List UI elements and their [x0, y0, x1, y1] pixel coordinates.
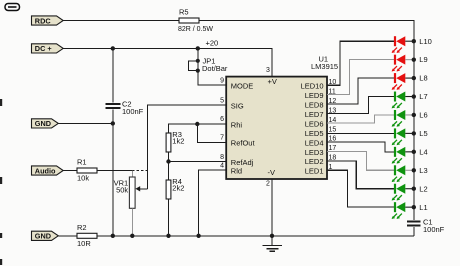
junction L3/anode rail: [412, 168, 416, 172]
VR1 wiper arrow: [139, 188, 147, 190]
svg-text:L8: L8: [419, 74, 427, 83]
potentiometer VR1 50k: [131, 171, 133, 178]
junction Rhi/RefOut: [195, 122, 199, 126]
svg-text:L5: L5: [419, 129, 427, 138]
wire GND flag to R2: [58, 235, 77, 237]
svg-text:Rhi: Rhi: [231, 120, 243, 129]
wire C2 to ground rail: [112, 109, 114, 235]
junction VR1/ground rail: [130, 234, 134, 238]
connector flag GND (lower): [32, 231, 59, 240]
svg-text:11: 11: [329, 88, 336, 95]
wire RefAdj node to R4: [168, 162, 170, 181]
svg-text:RDC: RDC: [35, 16, 52, 25]
junction C2/ground rail: [111, 234, 115, 238]
junction L6/anode rail: [412, 113, 416, 117]
svg-text:15: 15: [329, 126, 337, 133]
wire LED4 pin to LED L4: [327, 142, 395, 152]
LED L3 emission arrows: [392, 177, 397, 182]
svg-text:4: 4: [220, 163, 224, 170]
wire R1 to VR1: [97, 170, 132, 172]
svg-text:2k2: 2k2: [172, 183, 184, 192]
svg-text:Rld: Rld: [231, 166, 242, 175]
svg-text:DC +: DC +: [35, 44, 52, 53]
wire LED7 pin to LED L7: [327, 97, 395, 114]
wire R5 to LED anode rail: [199, 21, 414, 42]
wire LED3 pin to LED L3: [327, 151, 395, 170]
svg-text:LED6: LED6: [305, 119, 324, 128]
svg-text:8: 8: [220, 154, 224, 161]
svg-text:LED7: LED7: [305, 110, 324, 119]
svg-text:L6: L6: [419, 111, 427, 120]
svg-text:5: 5: [220, 97, 224, 104]
LED L1 emission arrows: [392, 214, 397, 219]
capacitor C1 100nF: [413, 227, 415, 236]
wire DC+ to C2: [112, 48, 114, 102]
junction L1/anode rail: [412, 205, 416, 209]
LED L7 emission arrows: [392, 103, 397, 108]
svg-text:12: 12: [329, 98, 337, 105]
junction L7/anode rail: [412, 94, 416, 98]
wire LED9 pin to LED L9: [327, 60, 395, 95]
junction DC+/JP1: [196, 46, 200, 50]
connector flag GND (upper): [32, 119, 59, 128]
jumper JP1 Dot/Bar: [197, 48, 199, 70]
connector flag RDC: [32, 16, 64, 25]
LED L4 emission arrows: [392, 158, 397, 163]
svg-text:17: 17: [329, 145, 337, 152]
decorative scan logo top-left: [5, 4, 20, 11]
svg-text:82R / 0.5W: 82R / 0.5W: [178, 26, 213, 33]
svg-text:LED1: LED1: [305, 167, 324, 176]
LED L6 emission arrows: [392, 121, 397, 126]
svg-text:LED9: LED9: [305, 91, 324, 100]
capacitor C2 100nF: [106, 103, 121, 105]
svg-text:Dot/Bar: Dot/Bar: [202, 64, 228, 73]
junction L9/anode rail: [412, 57, 416, 61]
svg-text:13: 13: [329, 107, 337, 114]
wire DC+ to IC pin 3 (+V): [63, 48, 273, 76]
resistor R5 82R/0.5W: [179, 18, 199, 23]
svg-text:Audio: Audio: [35, 166, 56, 175]
LED L7: [394, 92, 396, 102]
svg-text:SIG: SIG: [231, 101, 244, 110]
svg-text:R5: R5: [179, 8, 189, 17]
svg-text:LM3915: LM3915: [311, 62, 338, 71]
svg-text:R2: R2: [77, 223, 87, 232]
svg-text:1k2: 1k2: [172, 136, 184, 145]
wire LED1 pin to LED L1: [327, 170, 395, 207]
LED L8: [394, 73, 396, 83]
wire R3 to R4: [168, 152, 170, 162]
svg-text:9: 9: [220, 78, 224, 85]
wire RefOut/Rhi net: [169, 124, 227, 133]
junction GND/C2: [111, 121, 115, 125]
svg-text:GND: GND: [35, 232, 51, 241]
LED L10: [394, 36, 396, 46]
svg-text:R1: R1: [77, 158, 87, 167]
wire LED10 pin to LED L10: [327, 41, 395, 85]
resistor R3 1k2: [166, 133, 171, 152]
LED L5 emission arrows: [392, 140, 397, 145]
junction L4/anode rail: [412, 150, 416, 154]
LED L2: [394, 184, 396, 194]
wire GND flag to C2 net: [58, 122, 113, 124]
svg-text:L7: L7: [419, 92, 427, 101]
wire junction to RefOut pin 7: [197, 124, 226, 142]
svg-text:10k: 10k: [77, 174, 89, 183]
LED L8 emission arrows: [392, 84, 397, 89]
svg-text:GND: GND: [35, 119, 51, 128]
svg-text:18: 18: [329, 155, 337, 162]
junction R3/R4/RefAdj: [166, 159, 170, 163]
svg-text:-V: -V: [268, 168, 276, 177]
LED L9 emission arrows: [392, 66, 397, 71]
LED L1: [394, 202, 396, 212]
svg-text:10R: 10R: [77, 239, 91, 248]
svg-text:RefOut: RefOut: [231, 139, 256, 148]
svg-text:1: 1: [329, 164, 333, 171]
resistor R4 2k2: [166, 180, 171, 199]
svg-text:LED10: LED10: [301, 82, 324, 91]
wire junction to RefAdj pin 8: [169, 161, 227, 163]
resistor R1 10k: [77, 168, 97, 173]
dashed link wiper: [132, 170, 147, 172]
junction -V/ground rail: [270, 234, 274, 238]
connector flag Audio: [32, 166, 64, 175]
svg-text:6: 6: [220, 116, 224, 123]
op-amp/driver IC U1 LM3915: [226, 77, 327, 179]
LED L3: [394, 165, 396, 175]
wire Audio to R1: [63, 170, 78, 172]
svg-text:2: 2: [266, 181, 270, 188]
svg-text:L2: L2: [419, 184, 427, 193]
svg-text:+V: +V: [268, 77, 277, 86]
IC pin 2 (-V) stub to ground: [271, 179, 273, 236]
junction L10/anode rail: [412, 39, 416, 43]
wire LED2 pin to LED L2: [327, 161, 395, 189]
svg-text:MODE: MODE: [231, 81, 254, 90]
LED L2 emission arrows: [392, 195, 397, 200]
junction R4/ground rail: [166, 234, 170, 238]
svg-text:100nF: 100nF: [122, 107, 144, 116]
svg-text:L4: L4: [419, 147, 427, 156]
svg-text:7: 7: [220, 135, 224, 142]
wire LED anode rail: [413, 41, 415, 207]
connector flag DC+: [32, 44, 64, 53]
svg-text:L3: L3: [419, 166, 427, 175]
wire R4 to ground rail: [168, 199, 170, 236]
svg-text:10: 10: [329, 79, 337, 86]
wire LED8 pin to LED L8: [327, 78, 395, 104]
svg-text:L10: L10: [419, 37, 432, 46]
svg-text:16: 16: [329, 136, 337, 143]
svg-text:LED2: LED2: [305, 157, 324, 166]
svg-text:LED4: LED4: [305, 138, 324, 147]
scan artifact marks on left edge: [0, 99, 2, 106]
wire LED6 pin to LED L6: [327, 115, 395, 123]
wire RDC to R5: [63, 20, 180, 22]
wire VR1 wiper to SIG pin 5: [148, 105, 227, 189]
junction Rlo/ground rail: [196, 234, 200, 238]
svg-text:50k: 50k: [116, 186, 128, 195]
LED L4: [394, 147, 396, 157]
ground rail wire: [97, 235, 414, 237]
junction L8/anode rail: [412, 76, 416, 80]
svg-text:LED8: LED8: [305, 101, 324, 110]
junction L2/anode rail: [412, 187, 416, 191]
svg-text:+20: +20: [206, 38, 219, 47]
svg-text:LED3: LED3: [305, 148, 324, 157]
svg-text:14: 14: [329, 117, 337, 124]
svg-text:LED5: LED5: [305, 129, 324, 138]
svg-text:L1: L1: [419, 203, 427, 212]
LED L6: [394, 110, 396, 120]
svg-text:3: 3: [266, 67, 270, 74]
LED L5: [394, 128, 396, 138]
svg-text:100nF: 100nF: [423, 225, 445, 234]
wire Rlo pin 4 to ground rail: [199, 170, 227, 236]
ground symbol: [271, 236, 273, 246]
resistor R2 10R: [77, 233, 97, 238]
wire LED5 pin to LED L5: [327, 132, 395, 134]
wire JP1 to MODE pin 9: [198, 71, 226, 85]
svg-text:L9: L9: [419, 55, 427, 64]
junction L5/anode rail: [412, 131, 416, 135]
LED L9: [394, 55, 396, 65]
junction DC+/C2: [111, 46, 115, 50]
LED L10 emission arrows: [392, 48, 397, 53]
